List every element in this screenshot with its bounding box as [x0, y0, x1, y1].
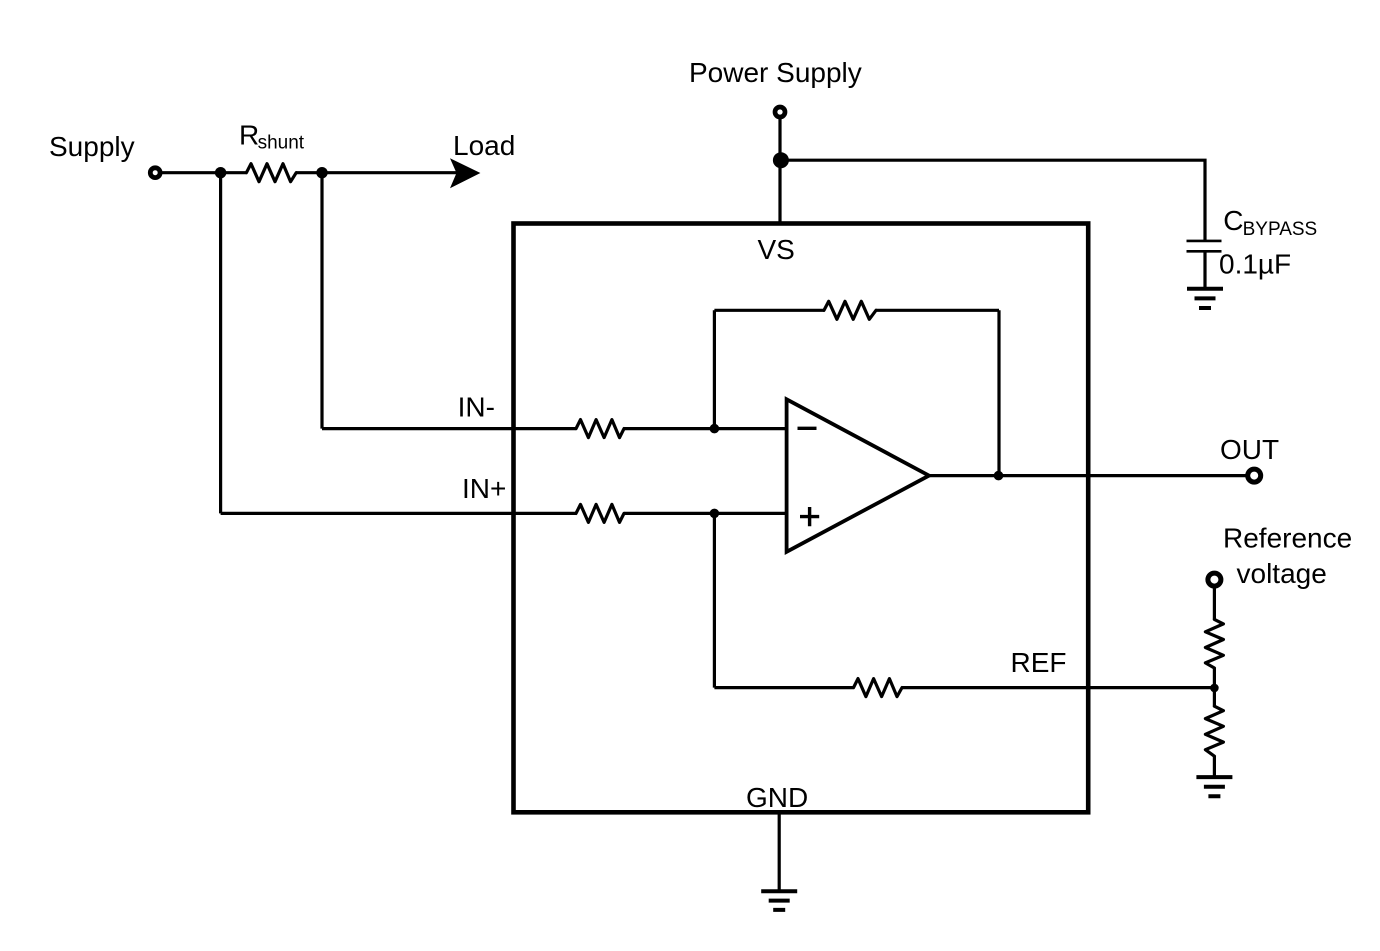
terminal Reference voltage (open circle): [1208, 573, 1221, 586]
svg-text:R: R: [239, 120, 259, 151]
resistor Rshunt: [246, 164, 296, 182]
node IN+ tap: [710, 509, 720, 519]
svg-text:0.1µF: 0.1µF: [1219, 249, 1291, 280]
wire IN+ node down to REF line: [713, 513, 716, 687]
node output feedback tap: [994, 471, 1004, 481]
arrowhead to Load: [450, 158, 480, 188]
IC boundary box: [514, 224, 1089, 813]
ground (GND pin): [761, 891, 797, 910]
wire node A down to IN+ line: [219, 173, 222, 514]
wire Rshunt to load arrow: [296, 171, 457, 174]
svg-text:REF: REF: [1011, 647, 1067, 678]
node IN- feedback tap: [710, 424, 720, 434]
wire supply terminal to Rshunt: [162, 171, 246, 174]
terminal OUT (open circle): [1248, 469, 1261, 482]
svg-text:BYPASS: BYPASS: [1243, 219, 1318, 240]
svg-text:Supply: Supply: [49, 131, 135, 162]
svg-text:GND: GND: [746, 782, 808, 813]
wire op-amp output to OUT terminal: [929, 474, 1246, 477]
wire feedback top left segment: [714, 309, 824, 312]
svg-text:voltage: voltage: [1237, 558, 1327, 589]
resistor REF: [854, 679, 903, 697]
svg-text:VS: VS: [758, 234, 795, 265]
ground (bypass cap): [1187, 289, 1223, 308]
wire power supply down to VS pin: [778, 119, 781, 224]
wire cap to ground: [1203, 252, 1206, 288]
wire power supply to bypass cap: [781, 160, 1205, 240]
resistor divider R1: [1205, 619, 1223, 668]
svg-text:shunt: shunt: [258, 133, 305, 154]
wire feedback left vertical: [713, 310, 716, 428]
svg-text:Power Supply: Power Supply: [689, 57, 862, 88]
op-amp plus sign: [800, 507, 819, 526]
resistor feedback: [824, 301, 876, 319]
resistor IN- input: [576, 420, 624, 438]
wire feedback top right segment: [876, 309, 999, 312]
capacitor CBYPASS: [1187, 241, 1222, 251]
svg-text:OUT: OUT: [1220, 434, 1279, 465]
wire IN- resistor to op-amp: [624, 427, 787, 430]
svg-text:C: C: [1223, 205, 1243, 236]
node power supply junction: [773, 152, 789, 168]
ground (reference divider): [1196, 777, 1232, 796]
svg-text:IN-: IN-: [458, 392, 495, 423]
node B (junction dot on supply line, IN- tap): [316, 167, 327, 178]
wire divider mid: [1213, 668, 1216, 706]
wire node B down to IN- line: [320, 173, 323, 429]
wire GND pin to ground: [778, 812, 781, 891]
resistor IN+ input: [576, 504, 624, 522]
op-amp minus sign: [798, 427, 817, 430]
terminal Power Supply (open circle): [775, 107, 785, 117]
wire REF line right segment to divider: [902, 686, 1214, 689]
svg-text:IN+: IN+: [462, 473, 506, 504]
wire reference terminal to divider R1: [1213, 589, 1216, 620]
svg-text:Reference: Reference: [1223, 523, 1352, 554]
op-amp U1: [787, 399, 929, 552]
node REF divider junction: [1210, 684, 1219, 693]
wire IN+ line left segment: [221, 512, 576, 515]
wire IN+ resistor to op-amp: [624, 512, 787, 515]
wire feedback right vertical: [997, 310, 1000, 475]
node A (junction dot on supply line, IN+ tap): [215, 167, 226, 178]
wire divider R2 to ground: [1213, 756, 1216, 776]
wire REF line left segment: [714, 686, 853, 689]
resistor divider R2: [1205, 706, 1223, 756]
svg-text:Load: Load: [453, 130, 515, 161]
wire IN- line left segment: [322, 427, 576, 430]
terminal Supply (open circle): [150, 168, 160, 178]
